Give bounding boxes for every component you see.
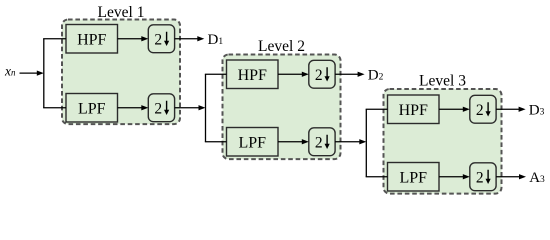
svg-text:Level 3: Level 3 <box>419 72 466 89</box>
svg-text:LPF: LPF <box>78 100 106 117</box>
svg-text:LPF: LPF <box>238 134 266 151</box>
svg-text:2: 2 <box>476 169 484 186</box>
svg-text:2: 2 <box>476 102 484 119</box>
svg-text:HPF: HPF <box>238 67 267 84</box>
svg-text:2: 2 <box>154 100 162 117</box>
svg-text:LPF: LPF <box>399 169 427 186</box>
svg-text:2: 2 <box>315 67 323 84</box>
svg-text:HPF: HPF <box>399 102 428 119</box>
svg-text:HPF: HPF <box>77 31 106 48</box>
svg-text:2: 2 <box>315 134 323 151</box>
svg-text:Level 1: Level 1 <box>98 4 145 21</box>
svg-text:Level 2: Level 2 <box>258 38 305 55</box>
svg-text:2: 2 <box>154 31 162 48</box>
